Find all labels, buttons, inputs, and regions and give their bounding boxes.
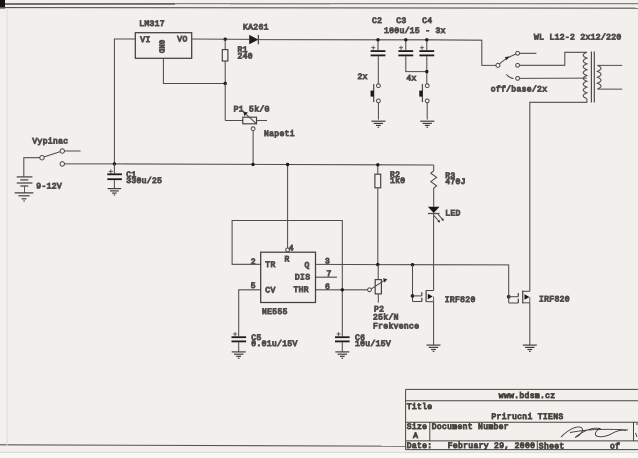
node C1 junction [113,162,116,165]
node R1 bottom junction [224,82,227,85]
svg-text:6: 6 [325,283,330,292]
node pin4 junction [286,163,289,166]
capacitor C5 [232,332,298,352]
svg-text:NE555: NE555 [262,308,288,317]
svg-text:1k0: 1k0 [390,177,405,186]
ground pushbutton 2x [371,121,385,127]
node C4 top [425,38,428,41]
svg-text:9-12V: 9-12V [36,182,62,191]
svg-text:470J: 470J [445,178,466,187]
wire switch middle throw to primary top [520,52,587,65]
svg-text:C3: C3 [396,17,406,26]
wire Q output net [316,264,509,295]
svg-text:Sheet: Sheet [539,443,565,452]
ground C6 [335,352,349,358]
svg-text:P1 5k/G: P1 5k/G [234,106,270,115]
wire TR-THR feedback loop and C6 drop [232,221,342,337]
svg-text:A: A [413,432,418,441]
pushbutton 2x [358,73,381,119]
svg-text:Frekvence: Frekvence [373,323,419,332]
switch Vypinac [32,137,80,166]
svg-text:240: 240 [238,52,253,61]
svg-text:GND: GND [157,40,165,54]
svg-text:Napeti: Napeti [264,130,295,139]
svg-text:Size: Size [407,423,428,432]
svg-text:off/base/2x: off/base/2x [491,86,548,95]
svg-text:R: R [285,255,290,264]
resistor R1 [222,39,253,83]
svg-text:IRF820: IRF820 [539,295,570,304]
regulator LM317 [135,20,191,59]
svg-text:10u/15V: 10u/15V [355,340,391,349]
potentiometer P2 [368,265,420,332]
ground Q1 [427,345,441,351]
ground battery [15,193,34,201]
svg-text:LM317: LM317 [139,20,165,29]
capacitor C6 [335,332,391,352]
svg-text:February 29, 2000: February 29, 2000 [448,442,536,451]
svg-text:330u/25: 330u/25 [126,177,162,186]
svg-text:Vypinac: Vypinac [32,137,68,146]
diode KA261 [243,23,269,44]
ground pushbutton 4x [420,121,434,127]
svg-text:4x: 4x [406,75,416,84]
wire primary bottom to Q2 drain [530,99,587,291]
svg-text:2x: 2x [358,73,368,82]
svg-text:Q: Q [305,261,310,270]
node R2 top [376,163,379,166]
svg-text:C4: C4 [422,17,432,26]
svg-text:100u/15 - 3x: 100u/15 - 3x [384,27,446,36]
node R2 bottom / Q net [376,263,379,266]
svg-text:IRF820: IRF820 [445,296,476,305]
LED [428,207,461,291]
svg-text:THR: THR [294,286,309,295]
wire CV pin to C5 [239,290,261,336]
resistor R2 [375,165,406,265]
ground C1 [108,189,122,195]
svg-text:VI: VI [140,36,150,45]
svg-text:3: 3 [325,258,330,267]
wire DIS stub [316,276,338,278]
svg-text:LED: LED [445,210,460,219]
timer NE555 [251,252,332,317]
svg-text:5: 5 [251,282,256,291]
svg-text:Document Number: Document Number [432,423,509,432]
transformer WL L12-2 2x12/220 [534,34,622,103]
capacitor C1 [107,164,162,189]
title block [406,389,638,451]
capacitor C4 [419,17,434,84]
node VO junction [224,38,227,41]
wire VI input [114,39,135,164]
wire VO output [192,38,250,40]
svg-text:VO: VO [177,36,187,45]
battery 9-12V [17,158,62,193]
wire pin4 reset to supply [287,165,289,248]
pin 4 bubble [286,248,290,252]
node C3-C4 bottom junction [425,70,428,73]
svg-text:DIS: DIS [295,274,310,283]
svg-text:Date:: Date: [407,442,433,451]
pushbutton 4x [406,75,429,120]
svg-text:2: 2 [251,258,256,267]
transistor Q2 IRF820 [507,291,570,345]
svg-text:C2: C2 [372,17,382,26]
svg-text:WL L12-2 2x12/220: WL L12-2 2x12/220 [534,34,622,43]
signature [561,427,626,438]
node P1 wiper junction [251,163,254,166]
svg-text:7: 7 [327,270,332,279]
switch off/base/2x [491,51,548,94]
wire THR pin to wiper [316,289,368,291]
node THR junction [341,288,344,291]
ground C5 [232,352,246,358]
svg-text:Prirucni TIENS: Prirucni TIENS [491,413,563,422]
capacitor C3 [396,17,427,72]
svg-text:Title: Title [407,403,433,412]
svg-text:0.01u/15V: 0.01u/15V [251,340,297,349]
wire main supply rail [65,164,434,165]
node C3 top [404,38,407,41]
svg-text:of: of [610,443,620,452]
node C2 top [376,38,379,41]
ground Q2 [523,345,537,351]
svg-text:TR: TR [265,261,275,270]
svg-text:KA261: KA261 [243,23,269,32]
transistor Q1 IRF820 [411,265,476,345]
wire diode to caps to rotary switch [258,40,496,66]
resistor R3 [431,165,466,207]
svg-text:www.bdsm.cz: www.bdsm.cz [499,392,556,401]
svg-text:CV: CV [265,286,275,295]
wire LM317 GND pin [163,58,225,83]
potentiometer P1 [225,84,295,164]
wire switch bottom throw to primary tap [520,77,587,79]
svg-text:25k/N: 25k/N [373,313,399,322]
capacitor C2 [371,17,386,84]
node Q net / Q1 gate branch [411,263,414,266]
